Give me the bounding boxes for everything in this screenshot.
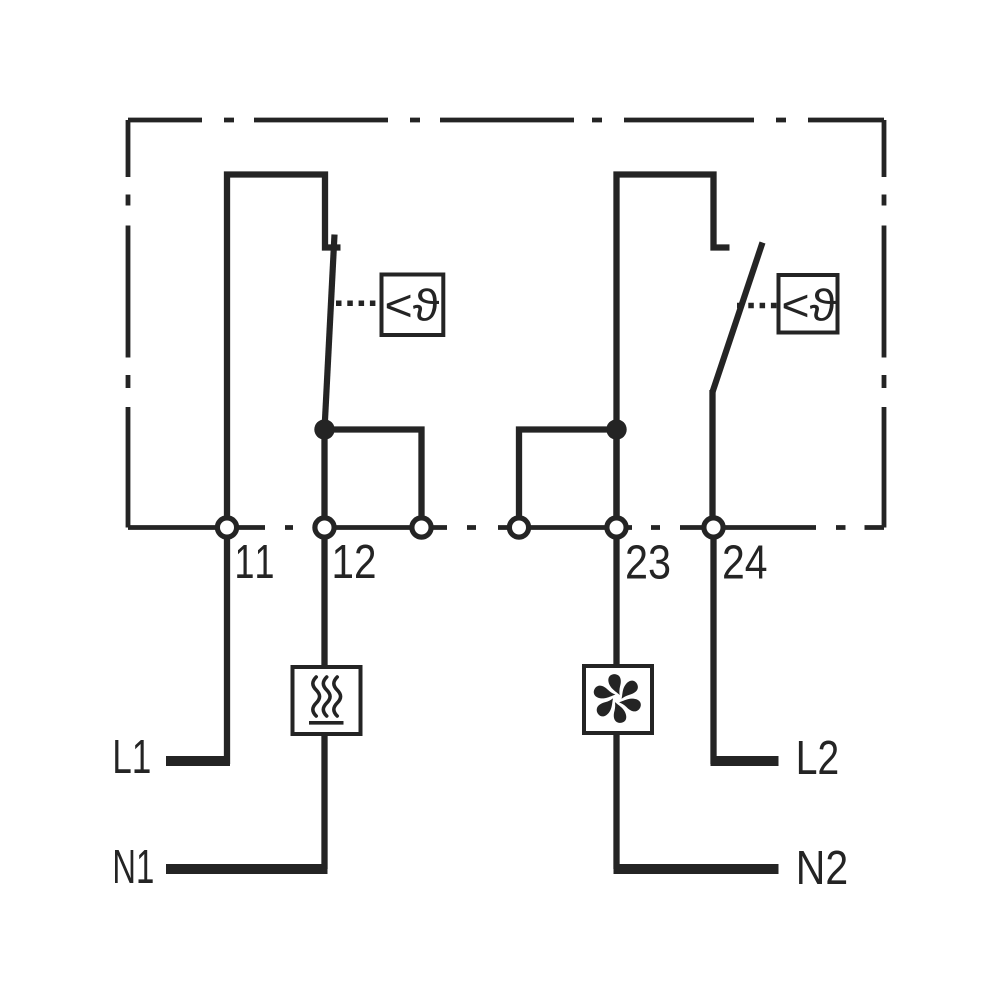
node: junction at 12 branch (314, 419, 334, 439)
node: junction at 23 branch (606, 419, 626, 439)
N2 feed bar (614, 864, 779, 874)
terminal 23 (607, 518, 626, 537)
fan box M1 (584, 666, 652, 733)
wire: junction down to terminal 23 (613, 430, 619, 528)
label L2 (799, 741, 837, 775)
terminal 24 (704, 518, 723, 537)
wire: terminal 23 down through fan M1 to N2 (613, 528, 619, 870)
contact blade B1 (closed, NC 11-12) (325, 235, 335, 430)
wire: junction to auxiliary terminal (left branch) (519, 430, 617, 528)
heater element waves (313, 677, 341, 716)
terminal 12 (315, 518, 334, 537)
label thermostat symbol U2 (784, 288, 836, 321)
heater box E1 (293, 667, 361, 734)
wire: terminal 11 down to L1 (224, 528, 230, 765)
label terminal 11 (237, 545, 273, 578)
N1 feed bar (166, 864, 328, 874)
heater element base line (309, 721, 344, 725)
L1 feed bar (166, 756, 230, 766)
temperature sensor box U2 (779, 275, 838, 333)
wire: blade B2 down to terminal 24 (709, 390, 715, 528)
wire: terminal 24 down to L2 (710, 528, 716, 765)
label L1 (115, 740, 149, 773)
enclosure border right (dash-dot) (882, 120, 887, 528)
fan impeller (590, 671, 645, 726)
wire: junction to auxiliary terminal (right branch) (325, 430, 422, 528)
label N1 (115, 850, 153, 883)
temperature sensor box U1 (382, 275, 444, 336)
wire: junction down to terminal 12 (321, 430, 327, 528)
enclosure border left (dash-dot) (126, 120, 131, 528)
terminal rail bottom (dash-dot through terminals) (128, 525, 884, 530)
label N2 (799, 851, 846, 885)
wire: terminal 23 up, over to fixed contact stub with foot (617, 175, 730, 528)
label terminal 23 (627, 545, 669, 579)
label terminal 12 (335, 545, 375, 579)
label terminal 24 (724, 545, 766, 579)
enclosure border top (dash-dot) (128, 118, 884, 123)
terminal 11 (217, 518, 236, 537)
dotted actuator link to temperature box U2 (737, 303, 777, 309)
wire: terminal 12 down through heater E1 to N1 (321, 528, 327, 870)
label thermostat symbol U1 (387, 288, 439, 321)
contact blade B2 (open, NO 23-24) (713, 243, 763, 393)
wire: terminal 11 up, over to fixed contact stub with foot (227, 175, 341, 528)
auxiliary terminal b (509, 518, 528, 537)
L2 feed bar (711, 756, 779, 766)
dotted actuator link to temperature box U1 (336, 301, 379, 307)
auxiliary terminal a (412, 518, 431, 537)
